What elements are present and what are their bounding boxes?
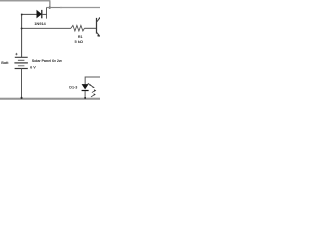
svg-text:Batt: Batt: [1, 61, 9, 65]
svg-text:6 V: 6 V: [30, 66, 36, 70]
svg-text:Solar Panel 6v 2w: Solar Panel 6v 2w: [32, 59, 62, 63]
svg-text:D1-3: D1-3: [69, 85, 77, 89]
svg-text:1N914: 1N914: [34, 21, 46, 26]
svg-text:5 kΩ: 5 kΩ: [75, 39, 84, 44]
